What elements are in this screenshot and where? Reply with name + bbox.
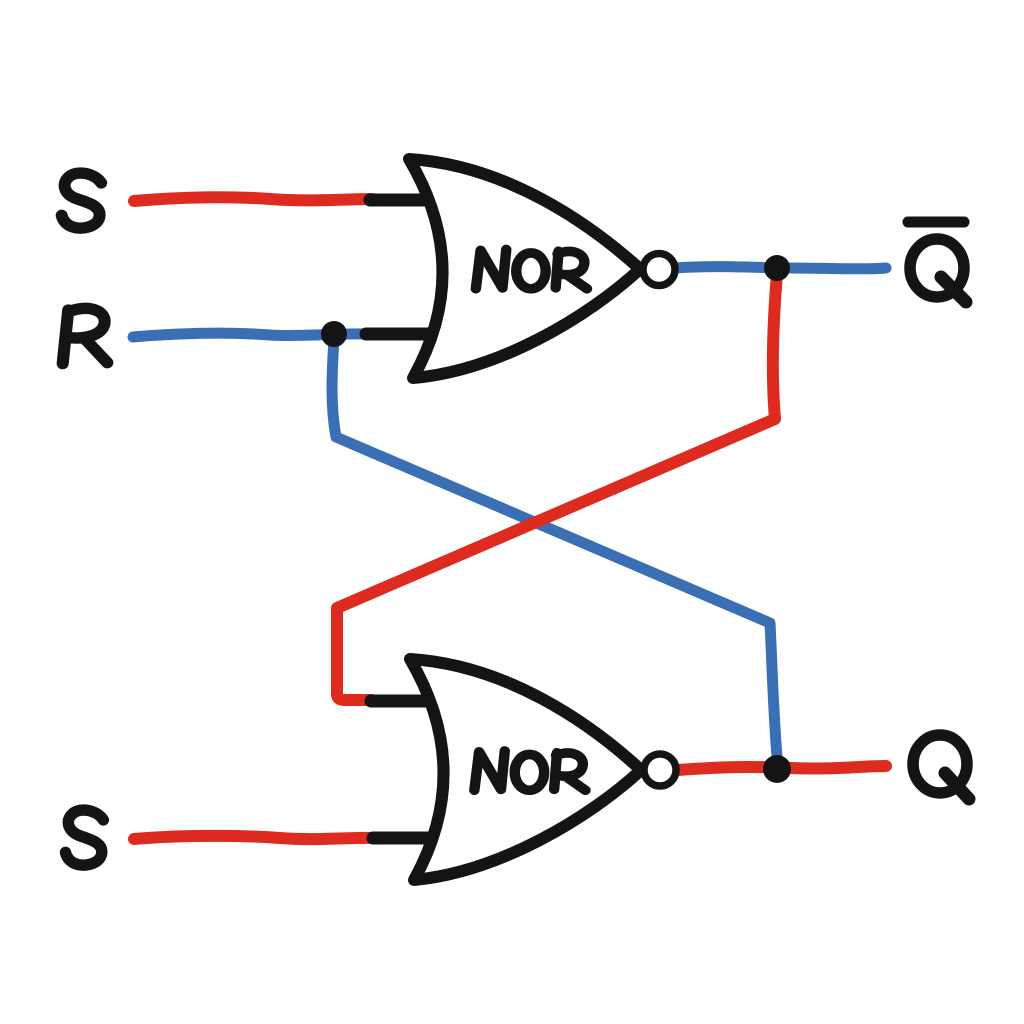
label NOR (bottom gate) [474,751,585,790]
node junction on Qbar output [764,255,790,281]
wire red cross-coupling (Qbar node to lower gate input) [337,274,777,700]
NOR gate U1 output bubble [643,254,675,286]
label NOR (top gate) [476,249,587,288]
wire Qbar output blue [674,267,886,269]
wire S (bottom) red input [134,836,376,839]
wire black stub gate1 input B [366,328,433,341]
label Q (bottom output) [913,735,969,799]
wire black stub gate2 input B [373,832,433,845]
wire black stub gate1 input A [370,194,433,207]
NOR gate U2 output bubble [644,754,676,786]
wire black stub gate2 input A [371,695,433,708]
NOR gate U1 (top) body [409,159,640,378]
node junction on Q output [763,755,791,783]
label S (bottom input) [66,810,104,865]
label Qbar (top output) [908,222,966,302]
wire blue cross-coupling (R node to lower output node) [332,338,777,757]
NOR gate U2 (bottom) body [410,659,641,880]
wire Q output red [678,766,886,770]
wire R blue input [133,333,369,337]
wire S (top) red input [134,197,372,201]
node junction on R input [321,321,347,347]
label R (input) [63,308,108,363]
label S (top input) [62,173,102,228]
